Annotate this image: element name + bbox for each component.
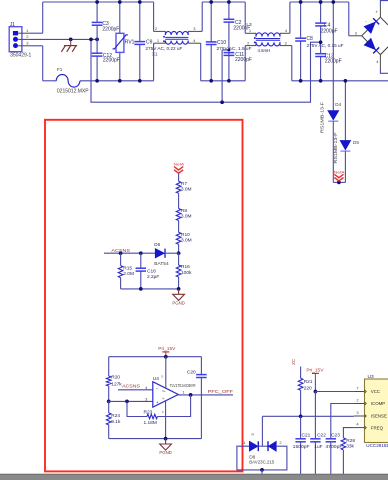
svg-text:2200pF: 2200pF — [103, 58, 120, 64]
svg-text:9.1k: 9.1k — [111, 419, 121, 425]
svg-text:D6: D6 — [154, 242, 160, 247]
common-mode choke FL1 — [153, 2, 155, 31]
svg-text:2.0M: 2.0M — [123, 271, 134, 277]
svg-text:ACSNS: ACSNS — [122, 384, 140, 390]
svg-text:TLV1701AIDBVR: TLV1701AIDBVR — [170, 383, 197, 388]
svg-text:275V AC, 0.22 uF: 275V AC, 0.22 uF — [145, 46, 182, 51]
pin 4 FREQ — [354, 427, 365, 429]
svg-text:4: 4 — [376, 59, 379, 64]
capacitor C23 — [326, 438, 336, 440]
wire VCC net — [315, 391, 353, 393]
resistor R7 — [176, 181, 181, 193]
svg-text:4: 4 — [145, 385, 148, 390]
svg-text:V+: V+ — [162, 389, 166, 393]
svg-text:100k: 100k — [181, 270, 192, 276]
svg-text:1: 1 — [243, 440, 246, 445]
capacitor C3 — [96, 2, 98, 22]
svg-text:PGND: PGND — [172, 301, 184, 306]
svg-text:C20: C20 — [187, 370, 196, 376]
svg-text:RS1MB-13-F: RS1MB-13-F — [333, 132, 338, 163]
svg-text:33k: 33k — [346, 444, 354, 450]
svg-text:2: 2 — [247, 40, 250, 45]
wire bridge positive output — [379, 6, 381, 18]
svg-text:+: + — [375, 10, 378, 15]
wire bridge negative output — [379, 55, 381, 68]
svg-text:C10: C10 — [217, 40, 226, 46]
svg-text:1: 1 — [157, 38, 160, 43]
svg-text:D5: D5 — [353, 140, 359, 145]
svg-text:3.0M: 3.0M — [181, 187, 192, 193]
wire D8 loop — [237, 446, 287, 470]
capacitor C18 — [140, 253, 142, 268]
svg-text:U4: U4 — [153, 376, 159, 382]
svg-text:3: 3 — [355, 30, 358, 35]
wire opamp top rail — [109, 356, 202, 358]
capacitor C21 — [300, 416, 302, 439]
resistor R10 — [176, 232, 181, 244]
wire J1 pin 3 to fuse — [18, 45, 30, 47]
wire lower rail segment 1 — [80, 80, 154, 82]
op-amp U4 — [153, 382, 179, 408]
diode D8 — [261, 416, 263, 446]
svg-text:+: + — [156, 400, 159, 405]
bridge rectifier D1 — [348, 2, 350, 36]
ground PGND opamp — [165, 439, 167, 444]
svg-text:127k: 127k — [111, 381, 122, 387]
wire earth tap C2-C11 — [222, 49, 229, 51]
svg-text:Pri_15V: Pri_15V — [158, 346, 176, 352]
svg-text:4: 4 — [285, 28, 288, 33]
svg-text:2: 2 — [356, 397, 359, 402]
svg-text:2: 2 — [155, 26, 158, 31]
svg-text:-: - — [365, 19, 367, 24]
svg-text:R21: R21 — [304, 379, 313, 385]
scrollbar bottom — [0, 474, 388, 480]
pin 3 ISENSE — [354, 415, 365, 417]
svg-text:X1: X1 — [152, 51, 158, 56]
svg-text:3: 3 — [250, 433, 255, 436]
svg-text:RV1: RV1 — [125, 39, 135, 45]
diode D6 — [155, 249, 164, 258]
svg-text:2.2µF: 2.2µF — [147, 274, 159, 280]
wire ACSNS net — [104, 252, 155, 254]
svg-text:3.0M: 3.0M — [181, 214, 192, 220]
wire opamp bottom rail — [109, 438, 202, 440]
svg-text:−: − — [156, 387, 159, 392]
wire lower rail segment 3 — [292, 80, 388, 82]
wire opamp left rail — [108, 357, 110, 376]
svg-text:NetA: NetA — [174, 163, 185, 167]
svg-text:PFC_OFF: PFC_OFF — [208, 389, 233, 395]
svg-text:2: 2 — [162, 410, 164, 414]
node earth junction — [89, 38, 93, 42]
wire NetA junction — [333, 181, 339, 183]
wire ISENSE net — [262, 415, 353, 417]
chassis ground — [69, 38, 73, 42]
svg-text:275V AC, 0.15 uF: 275V AC, 0.15 uF — [307, 43, 344, 48]
svg-text:2200pF: 2200pF — [102, 26, 119, 32]
svg-text:UCC2818D: UCC2818D — [366, 443, 388, 448]
svg-text:5: 5 — [161, 375, 163, 379]
wire J1 pin 1 to rail A — [18, 32, 30, 34]
wire R7-R8 — [178, 193, 180, 208]
svg-text:D4: D4 — [335, 102, 341, 107]
wire FREQ net — [343, 428, 353, 438]
svg-text:4: 4 — [193, 38, 196, 43]
resistor R16 — [178, 253, 180, 265]
svg-text:C22: C22 — [317, 432, 326, 438]
svg-text:1: 1 — [26, 28, 29, 33]
wire NetA to R7 — [178, 174, 180, 182]
wire V- pin — [165, 401, 167, 410]
capacitor C12 — [92, 52, 103, 54]
wire top rail A — [43, 1, 154, 3]
svg-text:R15: R15 — [123, 266, 132, 272]
svg-text:1500pF: 1500pF — [293, 444, 310, 450]
svg-text:R8: R8 — [181, 208, 187, 214]
diode D5 — [344, 81, 346, 141]
svg-text:350429-1: 350429-1 — [10, 53, 31, 59]
svg-text:3: 3 — [284, 40, 287, 45]
resistor R28 — [341, 438, 346, 450]
capacitor C20 — [200, 357, 202, 375]
svg-text:FREQ: FREQ — [371, 425, 384, 430]
svg-text:4: 4 — [356, 421, 359, 426]
svg-text:1: 1 — [182, 390, 185, 395]
svg-text:Pri_15V: Pri_15V — [306, 368, 324, 374]
wire ICOMP net — [331, 404, 354, 439]
svg-text:BAT54: BAT54 — [154, 261, 169, 267]
svg-text:BAV23C,215: BAV23C,215 — [249, 460, 274, 466]
svg-text:R24: R24 — [111, 413, 120, 419]
capacitor C8 — [300, 2, 302, 38]
wire V+ pin — [165, 357, 167, 381]
wire lower rail segment 2 — [201, 80, 246, 82]
svg-text:220: 220 — [304, 386, 312, 392]
svg-text:3: 3 — [193, 26, 196, 31]
svg-text:ICOMP: ICOMP — [371, 401, 385, 406]
svg-text:2: 2 — [279, 440, 282, 445]
resistor R20 — [106, 376, 111, 386]
resistor R15 — [120, 253, 122, 265]
svg-text:2: 2 — [26, 34, 29, 39]
resistor R8 — [176, 209, 181, 221]
capacitor C10 — [210, 2, 212, 42]
svg-text:NetA: NetA — [334, 170, 345, 174]
svg-text:VCC: VCC — [371, 389, 380, 394]
capacitor C22 — [314, 392, 316, 439]
svg-text:2200pF: 2200pF — [235, 57, 252, 63]
wire bottom of divider — [121, 288, 179, 290]
ground PGND divider — [178, 289, 180, 294]
svg-text:3: 3 — [26, 41, 29, 46]
svg-text:C23: C23 — [331, 432, 340, 438]
svg-text:R20: R20 — [111, 374, 120, 380]
connector J1 — [9, 27, 22, 52]
svg-text:V-: V- — [162, 396, 165, 400]
svg-text:ISENSE: ISENSE — [371, 414, 387, 419]
svg-text:4.5mH: 4.5mH — [258, 48, 271, 53]
wire R10 to node — [178, 244, 180, 253]
resistor R23 — [147, 414, 157, 418]
svg-text:2200pF: 2200pF — [321, 28, 338, 34]
svg-text:R16: R16 — [181, 264, 190, 270]
wire minus input — [118, 389, 153, 391]
resistor R21 — [298, 378, 303, 390]
wire earth bus — [91, 39, 321, 102]
wire ZC to R21 — [300, 367, 302, 379]
wire feedback — [127, 401, 147, 416]
varistor RV1 — [119, 2, 121, 33]
svg-text:1.18M: 1.18M — [144, 420, 157, 426]
svg-text:R28: R28 — [346, 438, 355, 444]
svg-text:3.0M: 3.0M — [181, 238, 192, 244]
svg-text:C21: C21 — [302, 432, 311, 438]
bridge diode lower — [364, 38, 375, 49]
node plus input — [107, 400, 111, 404]
svg-text:J1: J1 — [10, 22, 16, 28]
svg-text:4700pF: 4700pF — [326, 444, 343, 450]
wire R8-R10 — [178, 221, 180, 233]
svg-text:PGND: PGND — [159, 450, 171, 455]
capacitor C2 — [228, 2, 230, 19]
svg-text:R10: R10 — [181, 232, 190, 238]
bridge diode upper — [364, 22, 375, 33]
diode D4 — [332, 2, 334, 111]
svg-text:3: 3 — [356, 410, 359, 415]
red highlight box — [45, 120, 243, 472]
capacitor C4 — [320, 2, 322, 23]
pin 7 VCC — [354, 391, 365, 393]
svg-text:ZC: ZC — [291, 359, 296, 365]
svg-text:0215012.MXP: 0215012.MXP — [57, 88, 89, 94]
capacitor C13 — [315, 53, 326, 55]
svg-text:C9: C9 — [146, 39, 153, 45]
svg-text:F1: F1 — [57, 67, 63, 72]
svg-text:R7: R7 — [181, 181, 187, 187]
svg-text:7: 7 — [356, 385, 359, 390]
wire J1 pin 2 (earth) — [18, 38, 30, 40]
wire top rail B — [202, 1, 245, 3]
wire output — [178, 394, 233, 396]
svg-text:C8: C8 — [306, 36, 313, 42]
svg-text:1: 1 — [249, 28, 252, 33]
svg-text:C18: C18 — [147, 268, 156, 274]
wire top rail C — [290, 1, 349, 3]
svg-text:RS1MB-13-F: RS1MB-13-F — [320, 102, 325, 133]
capacitor C9 — [139, 2, 141, 42]
capacitor C11 — [224, 52, 235, 54]
svg-text:1uF: 1uF — [314, 444, 322, 450]
svg-text:R23: R23 — [144, 409, 153, 415]
resistor R24 — [108, 401, 110, 413]
wire plus input — [109, 400, 153, 402]
pin 2 ICOMP — [354, 403, 365, 405]
